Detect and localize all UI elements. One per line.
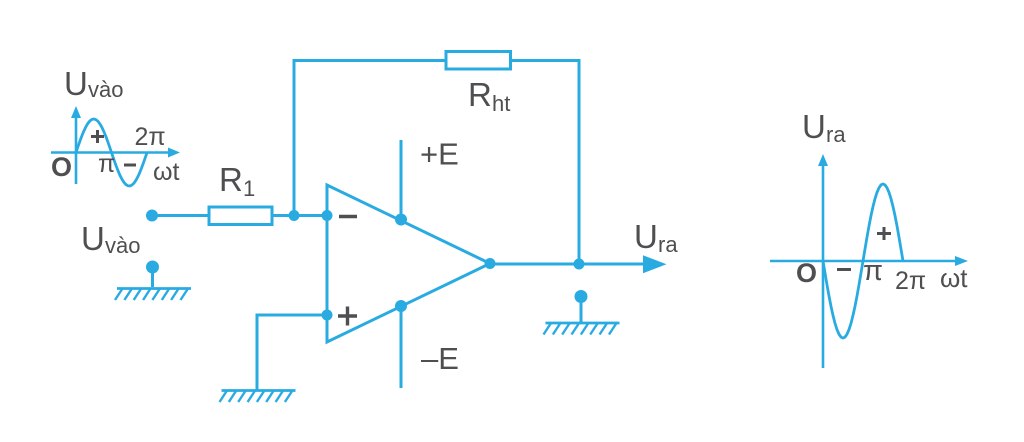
svg-text:R: R (219, 161, 243, 198)
svg-text:U: U (81, 220, 105, 257)
ground (output reference) (544, 323, 620, 335)
svg-text:ωt: ωt (940, 263, 968, 293)
svg-text:O: O (796, 258, 817, 288)
label minus (output graph) (837, 268, 851, 271)
svg-text:ra: ra (826, 122, 846, 147)
resistor R1 (209, 207, 272, 225)
svg-text:O: O (51, 152, 72, 182)
svg-text:1: 1 (243, 176, 255, 201)
node inverting input pin (322, 210, 333, 221)
input waveform vertical axis (75, 116, 78, 184)
ground (input reference) (115, 289, 191, 301)
node output reference terminal (575, 290, 588, 303)
node -E connection (395, 300, 407, 312)
node feedback tap (289, 210, 300, 221)
svg-text:U: U (634, 218, 658, 255)
node non-inverting input pin (322, 310, 333, 321)
svg-text:ht: ht (492, 91, 510, 116)
label minus (input graph) (124, 164, 136, 167)
wire input terminal to R1 and to inverting input (152, 214, 327, 217)
stem input reference to ground (151, 267, 154, 287)
output waveform horizontal axis (770, 260, 957, 263)
svg-text:ra: ra (658, 232, 678, 257)
svg-text:vào: vào (105, 233, 140, 258)
output wire (490, 263, 646, 266)
node input terminal (146, 210, 158, 222)
svg-text:vào: vào (88, 77, 123, 102)
node op-amp output (apex) (485, 258, 496, 269)
output arrowhead (643, 255, 667, 273)
svg-text:R: R (468, 76, 492, 113)
label minus (inverting input) (339, 215, 357, 218)
ground (non-inverting input) (220, 391, 296, 403)
input waveform horizontal axis (51, 151, 170, 154)
op-amp U1 triangle (327, 185, 490, 342)
svg-text:U: U (802, 108, 826, 145)
node +E connection (395, 214, 407, 226)
svg-text:–E: –E (421, 341, 459, 376)
feedback wire (up from R1 node, across top, down to output) (294, 61, 579, 265)
input waveform horizontal axis arrowhead (168, 148, 180, 158)
node output junction (574, 259, 585, 270)
wire non-inverting input to ground (257, 315, 327, 390)
label plus (output graph) (877, 227, 891, 240)
node input reference terminal (146, 261, 159, 274)
-E supply wire (400, 306, 403, 388)
resistor Rht (446, 52, 511, 70)
svg-text:π: π (98, 150, 115, 178)
svg-text:U: U (64, 65, 88, 102)
output waveform horizontal axis arrowhead (955, 256, 968, 266)
label plus (input graph) (91, 130, 104, 143)
svg-text:2π: 2π (135, 123, 166, 151)
svg-text:π: π (863, 255, 883, 287)
svg-text:2π: 2π (895, 267, 926, 295)
svg-text:ωt: ωt (153, 158, 180, 186)
input waveform vertical axis arrowhead (71, 106, 81, 118)
output waveform sine curve (823, 184, 903, 338)
+E supply wire (400, 140, 403, 220)
input waveform sine curve (76, 119, 147, 186)
output waveform vertical axis arrowhead (818, 154, 828, 166)
output waveform vertical axis (822, 164, 825, 368)
label plus (non-inverting input) (338, 307, 357, 326)
svg-text:+E: +E (420, 137, 459, 172)
stem output reference to ground (580, 297, 583, 323)
